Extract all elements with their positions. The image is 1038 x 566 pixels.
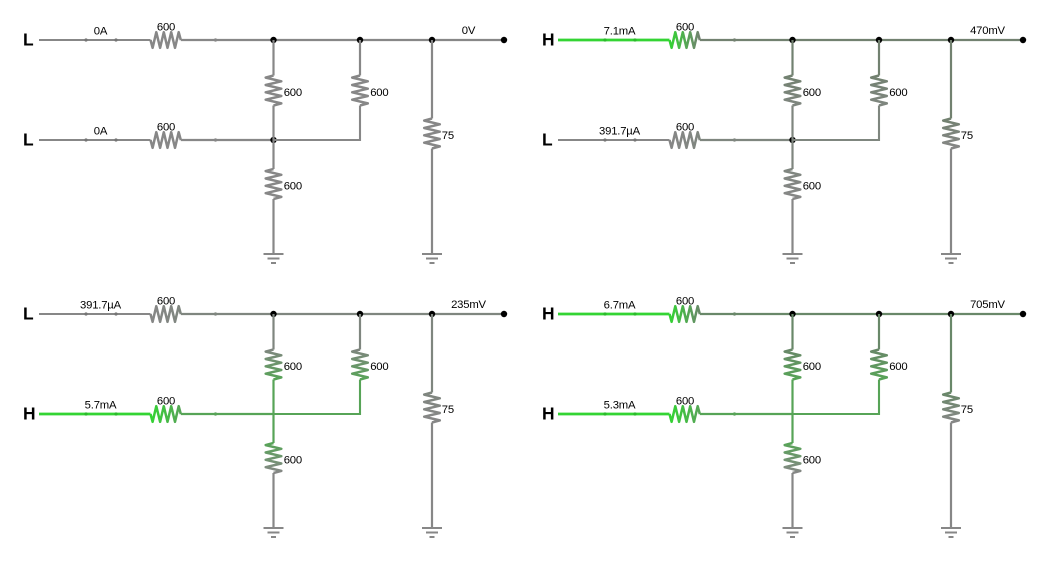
quadrant HH wire R6 to ground [950, 423, 952, 529]
quadrant LL resistor R5 600 (vertical to ground) [266, 169, 282, 199]
quadrant HL wire row1 output segment [700, 39, 1023, 41]
quadrant HH resistor R6 75 (load) [943, 393, 959, 423]
svg-text:600: 600 [803, 361, 821, 373]
quadrant LH output terminal dot [501, 311, 507, 317]
svg-text:600: 600 [676, 396, 694, 408]
quadrant HL node dot B [876, 37, 882, 43]
svg-text:600: 600 [284, 361, 302, 373]
quadrant LH resistor R5 600 (vertical to ground) [266, 443, 282, 473]
svg-text:600: 600 [157, 122, 175, 134]
quadrant HH wire R3 bottom to node X [791, 380, 793, 415]
quadrant HH output terminal dot [1020, 311, 1026, 317]
quadrant HH resistor R3 600 (vertical) [785, 350, 801, 380]
quadrant HL wire R6 to ground [950, 149, 952, 255]
svg-text:600: 600 [370, 361, 388, 373]
quadrant HL wire R3 bottom to node X [791, 106, 793, 141]
quadrant LL wire node B down [359, 40, 361, 76]
quadrant LL ground 1 [264, 254, 284, 263]
quadrant HL wire row2 to node X [700, 139, 793, 141]
svg-text:235mV: 235mV [451, 299, 486, 311]
quadrant LH wire node C down [431, 314, 433, 393]
quadrant HH wire row1 input segment [558, 313, 670, 316]
quadrant LH wire elbow node X to R4 [274, 380, 361, 415]
svg-text:5.7mA: 5.7mA [85, 399, 117, 411]
quadrant HH resistor R1 600 (row 1) [670, 306, 700, 322]
svg-text:6.7mA: 6.7mA [604, 299, 636, 311]
svg-text:470mV: 470mV [970, 25, 1005, 37]
quadrant LL resistor R3 600 (vertical) [266, 76, 282, 106]
quadrant LL node dot C [429, 37, 435, 43]
quadrant HL wire post ticks row1 [603, 38, 606, 41]
quadrant HL wire node B down [878, 40, 880, 76]
quadrant HL node dot C [948, 37, 954, 43]
quadrant HL resistor R1 600 (row 1) [670, 32, 700, 48]
quadrant LL output terminal dot [501, 37, 507, 43]
svg-text:705mV: 705mV [970, 299, 1005, 311]
quadrant LH resistor R2 600 (row 2) [151, 406, 181, 422]
svg-text:H: H [542, 304, 554, 324]
quadrant LL resistor R6 75 (load) [424, 119, 440, 149]
quadrant LL wire post ticks row1 [84, 38, 87, 41]
svg-text:600: 600 [284, 181, 302, 193]
quadrant LL wire R3 bottom to node X [272, 106, 274, 141]
quadrant LL wire row2 to node X [181, 139, 274, 141]
svg-text:600: 600 [370, 87, 388, 99]
quadrant HH resistor R4 600 (vertical) [871, 350, 887, 380]
quadrant LH wire row2 input segment [39, 413, 151, 416]
quadrant LL wire node A down [272, 40, 274, 76]
quadrant LH wire row2 to node X [181, 413, 274, 415]
quadrant HH wire post ticks row1 [603, 312, 606, 315]
quadrant HL resistor R4 600 (vertical) [871, 76, 887, 106]
quadrant LL ground 2 [422, 254, 442, 263]
quadrant LL node dot A [270, 37, 276, 43]
svg-text:391.7µA: 391.7µA [80, 299, 122, 311]
svg-text:600: 600 [889, 361, 907, 373]
quadrant LL wire node C down [431, 40, 433, 119]
svg-text:0A: 0A [94, 25, 108, 37]
quadrant LL node dot B [357, 37, 363, 43]
quadrant HH wire elbow node X to R4 [793, 380, 880, 415]
quadrant LL wire R6 to ground [431, 149, 433, 255]
svg-text:L: L [23, 130, 34, 150]
svg-text:L: L [542, 130, 553, 150]
quadrant HL wire node C down [950, 40, 952, 119]
svg-text:600: 600 [157, 396, 175, 408]
quadrant HH resistor R2 600 (row 2) [670, 406, 700, 422]
quadrant HL wire R5 to ground [791, 199, 793, 254]
quadrant HL resistor R3 600 (vertical) [785, 76, 801, 106]
svg-text:75: 75 [961, 404, 973, 416]
quadrant LH node dot C [429, 311, 435, 317]
quadrant LL resistor R1 600 (row 1) [151, 32, 181, 48]
quadrant LH resistor R1 600 (row 1) [151, 306, 181, 322]
quadrant LL resistor R2 600 (row 2) [151, 132, 181, 148]
quadrant HL ground 2 [941, 254, 961, 263]
quadrant LH node dot A [270, 311, 276, 317]
quadrant LH resistor R4 600 (vertical) [352, 350, 368, 380]
quadrant LH ground 2 [422, 528, 442, 537]
svg-text:600: 600 [676, 296, 694, 308]
quadrant LH resistor R3 600 (vertical) [266, 350, 282, 380]
quadrant HH wire R5 to ground [791, 473, 793, 528]
quadrant HL wire post ticks row2 [603, 138, 606, 141]
quadrant HH wire row2 input segment [558, 413, 670, 416]
quadrant HH wire post ticks row2 [603, 412, 606, 415]
quadrant LH wire R5 to ground [272, 473, 274, 528]
svg-text:0V: 0V [462, 25, 476, 37]
quadrant HL wire node A down [791, 40, 793, 76]
quadrant LL wire elbow node X to R4 [274, 106, 361, 141]
quadrant HH node dot C [948, 311, 954, 317]
quadrant HL ground 1 [783, 254, 803, 263]
quadrant HH resistor R5 600 (vertical to ground) [785, 443, 801, 473]
quadrant LH wire R3 bottom to node X [272, 380, 274, 415]
quadrant HH node dot B [876, 311, 882, 317]
quadrant LH wire R6 to ground [431, 423, 433, 529]
svg-text:5.3mA: 5.3mA [604, 399, 636, 411]
quadrant HH wire node B down [878, 314, 880, 350]
svg-text:600: 600 [157, 296, 175, 308]
quadrant HH ground 2 [941, 528, 961, 537]
quadrant LL wire post ticks row2 [84, 138, 87, 141]
svg-text:75: 75 [442, 404, 454, 416]
quadrant LH wire post ticks row2 [84, 412, 87, 415]
quadrant HL output terminal dot [1020, 37, 1026, 43]
quadrant LH wire node B down [359, 314, 361, 350]
svg-text:0A: 0A [94, 125, 108, 137]
quadrant HL resistor R6 75 (load) [943, 119, 959, 149]
quadrant LL wire row2 input segment [39, 139, 151, 141]
svg-text:600: 600 [889, 87, 907, 99]
quadrant LH wire node A down [272, 314, 274, 350]
svg-text:75: 75 [442, 130, 454, 142]
svg-text:H: H [23, 404, 35, 424]
quadrant HL wire row2 input segment [558, 139, 670, 141]
quadrant LH wire row1 output segment [181, 313, 504, 315]
svg-text:600: 600 [803, 181, 821, 193]
svg-text:L: L [23, 304, 34, 324]
quadrant LL wire node X down [272, 140, 274, 169]
quadrant HL wire elbow node X to R4 [793, 106, 880, 141]
svg-text:600: 600 [803, 455, 821, 467]
quadrant HL resistor R2 600 (row 2) [670, 132, 700, 148]
svg-text:600: 600 [284, 87, 302, 99]
quadrant LL resistor R4 600 (vertical) [352, 76, 368, 106]
quadrant HH wire node A down [791, 314, 793, 350]
svg-text:7.1mA: 7.1mA [604, 25, 636, 37]
quadrant LL wire row1 input segment [39, 39, 151, 41]
quadrant LL wire R5 to ground [272, 199, 274, 254]
svg-text:75: 75 [961, 130, 973, 142]
quadrant LH node dot B [357, 311, 363, 317]
quadrant HH wire node X down [791, 414, 793, 443]
quadrant HH node dot A [789, 311, 795, 317]
svg-text:600: 600 [803, 87, 821, 99]
quadrant HH wire row2 to node X [700, 413, 793, 415]
quadrant HL resistor R5 600 (vertical to ground) [785, 169, 801, 199]
quadrant HH ground 1 [783, 528, 803, 537]
svg-text:H: H [542, 30, 554, 50]
quadrant HH wire node C down [950, 314, 952, 393]
quadrant LH ground 1 [264, 528, 284, 537]
quadrant HL node dot A [789, 37, 795, 43]
quadrant HL node dot X [789, 137, 795, 143]
quadrant LL node dot X [270, 137, 276, 143]
quadrant HH wire row1 output segment [700, 313, 1023, 315]
svg-text:600: 600 [676, 122, 694, 134]
svg-text:600: 600 [676, 22, 694, 34]
quadrant LH wire node X down [272, 414, 274, 443]
svg-text:600: 600 [157, 22, 175, 34]
quadrant LH wire post ticks row1 [84, 312, 87, 315]
svg-text:391.7µA: 391.7µA [599, 125, 641, 137]
quadrant LL wire row1 output segment [181, 39, 504, 41]
quadrant LH resistor R6 75 (load) [424, 393, 440, 423]
quadrant HL wire row1 input segment [558, 39, 670, 42]
svg-text:H: H [542, 404, 554, 424]
svg-text:L: L [23, 30, 34, 50]
quadrant HL wire node X down [791, 140, 793, 169]
svg-text:600: 600 [284, 455, 302, 467]
quadrant LH wire row1 input segment [39, 313, 151, 315]
